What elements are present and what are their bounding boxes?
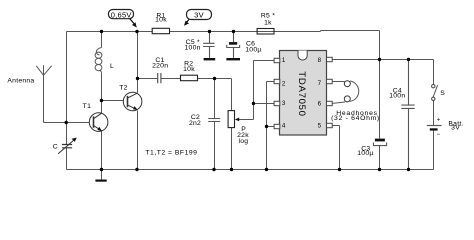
svg-text:(32 - 64Ohm): (32 - 64Ohm) [331, 115, 380, 122]
svg-text:100n: 100n [185, 44, 201, 51]
svg-text:−: − [437, 132, 441, 138]
svg-text:3: 3 [282, 100, 286, 107]
svg-text:S: S [440, 90, 445, 97]
svg-text:3V: 3V [451, 125, 460, 132]
svg-text:log: log [238, 138, 248, 145]
svg-text:2n2: 2n2 [189, 120, 201, 127]
svg-text:1k: 1k [264, 19, 272, 26]
svg-text:10k: 10k [155, 17, 167, 24]
svg-text:T1,T2 = BF199: T1,T2 = BF199 [145, 150, 197, 157]
svg-text:0,65V: 0,65V [111, 10, 132, 19]
svg-text:T1: T1 [83, 103, 91, 110]
svg-text:8: 8 [318, 57, 322, 64]
svg-text:Antenna: Antenna [7, 77, 34, 84]
svg-text:+: + [437, 118, 441, 124]
svg-text:100µ: 100µ [245, 46, 261, 53]
svg-text:4: 4 [282, 122, 286, 129]
svg-text:L: L [110, 63, 114, 70]
svg-text:C: C [53, 143, 58, 150]
svg-text:5: 5 [318, 123, 322, 130]
svg-text:220n: 220n [152, 63, 168, 70]
svg-text:2: 2 [282, 80, 286, 87]
svg-text:10k: 10k [183, 66, 195, 73]
svg-text:3V: 3V [194, 10, 204, 19]
svg-text:100n: 100n [389, 93, 405, 100]
svg-text:7: 7 [318, 80, 322, 87]
svg-text:6: 6 [318, 101, 322, 108]
svg-text:1: 1 [282, 57, 286, 64]
svg-text:TDA7050: TDA7050 [296, 71, 307, 116]
svg-text:100µ: 100µ [357, 150, 373, 157]
svg-text:T2: T2 [119, 85, 127, 92]
